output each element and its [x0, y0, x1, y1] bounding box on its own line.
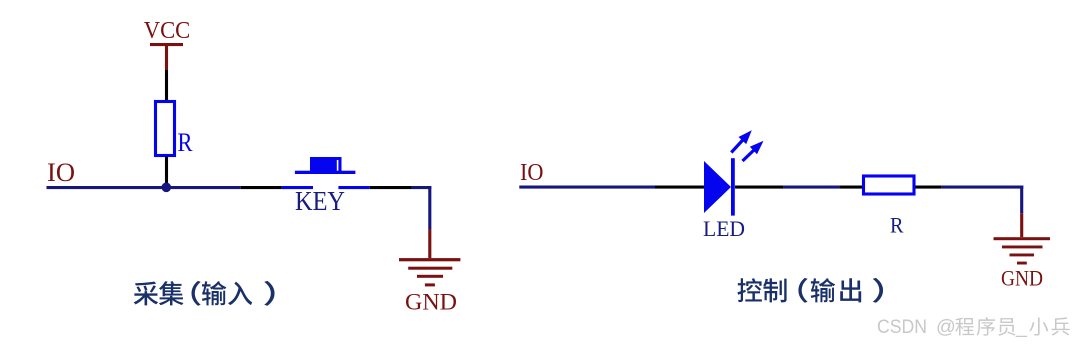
svg-text:IO: IO [520, 160, 544, 186]
svg-text:GND: GND [405, 290, 457, 315]
svg-text:R: R [178, 128, 194, 157]
wire IO horizontal (right circuit) [519, 186, 1023, 189]
svg-text:_: _ [1015, 316, 1028, 338]
wire down to GND (left) [428, 186, 431, 258]
svg-text:IO: IO [47, 158, 75, 187]
caption 采集（输入） [134, 281, 275, 306]
resistor R (left) [156, 102, 175, 156]
svg-text:VCC: VCC [144, 18, 191, 44]
ground GND symbol (right) [994, 237, 1051, 264]
wire IO horizontal (left circuit) [47, 186, 432, 189]
node junction dot [162, 183, 172, 193]
switch KEY pins [282, 186, 370, 189]
wire VCC to resistor R [165, 70, 168, 101]
svg-text:CSDN: CSDN [877, 316, 927, 338]
wire resistor to IO node [165, 157, 168, 188]
wire down to GND (right) [1020, 186, 1023, 238]
caption 控制（输出） [738, 278, 884, 303]
watermark CSDN @程序员_小兵 [877, 316, 1070, 338]
svg-text:GND: GND [1001, 266, 1043, 291]
svg-text:KEY: KEY [295, 186, 345, 216]
svg-text:@: @ [936, 316, 956, 338]
svg-text:LED: LED [703, 216, 745, 241]
diode LED symbol [704, 158, 735, 215]
svg-text:R: R [890, 213, 904, 238]
resistor R (right) [864, 176, 915, 194]
power symbol VCC [144, 18, 191, 70]
ground GND symbol (left) [399, 258, 460, 286]
switch KEY button symbol [295, 157, 356, 174]
LED emission arrows [731, 130, 763, 161]
